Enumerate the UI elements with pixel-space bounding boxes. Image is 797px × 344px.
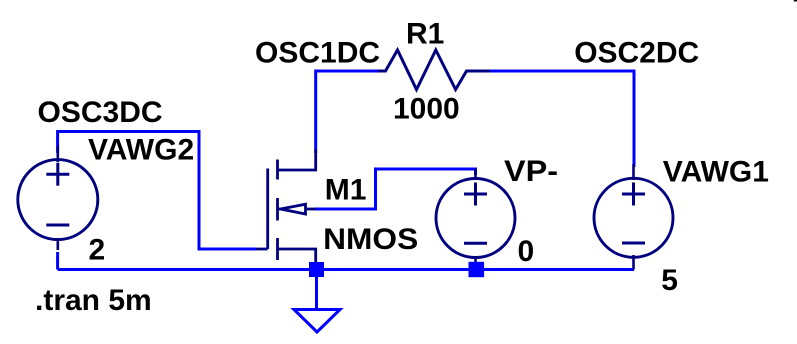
drain lead: [278, 149, 316, 170]
svg-text:OSC1DC: OSC1DC: [255, 36, 380, 69]
svg-text:VAWG2: VAWG2: [88, 133, 194, 166]
gate lead: [256, 248, 268, 251]
svg-text:OSC3DC: OSC3DC: [38, 96, 163, 129]
wire OSC3DC net: VAWG2 top to gate: [58, 132, 256, 250]
corner artifact: [794, 0, 797, 2]
svg-text:NMOS: NMOS: [323, 223, 418, 256]
svg-text:0: 0: [518, 235, 535, 268]
bulk lead with arrow: [278, 208, 287, 211]
wire OSC2DC net: resistor right to VAWG1 top: [488, 71, 634, 167]
source lead: [278, 249, 316, 263]
gate bar: [266, 169, 269, 250]
voltage source VP-: [436, 169, 515, 266]
svg-text:R1: R1: [406, 18, 444, 51]
svg-text:VAWG1: VAWG1: [663, 156, 769, 189]
channel bar bulk: [276, 198, 279, 221]
junction M1 source: [309, 262, 324, 277]
wire OSC1DC net: drain up and right to resistor: [316, 71, 380, 153]
svg-text:OSC2DC: OSC2DC: [574, 36, 699, 69]
voltage source VAWG2: [18, 146, 98, 250]
ground: [294, 310, 340, 333]
channel bar drain: [276, 160, 279, 180]
svg-text:.tran 5m: .tran 5m: [35, 284, 152, 317]
transistor M1 (NMOS): [256, 149, 316, 263]
wire ground stem: [315, 271, 318, 310]
voltage source VAWG1: [594, 164, 673, 270]
channel bar source: [276, 238, 279, 260]
svg-text:M1: M1: [325, 173, 367, 206]
resistor R1: [378, 50, 490, 90]
svg-text:5: 5: [661, 264, 678, 297]
wire bottom rail: [58, 268, 634, 271]
svg-text:VP-: VP-: [504, 155, 558, 188]
svg-text:1000: 1000: [393, 93, 460, 126]
wire bulk: M1 body to VP- top: [314, 169, 476, 209]
svg-text:2: 2: [89, 233, 106, 266]
wire VAWG2 bottom: [56, 252, 59, 270]
junction VP- bottom: [469, 262, 485, 277]
